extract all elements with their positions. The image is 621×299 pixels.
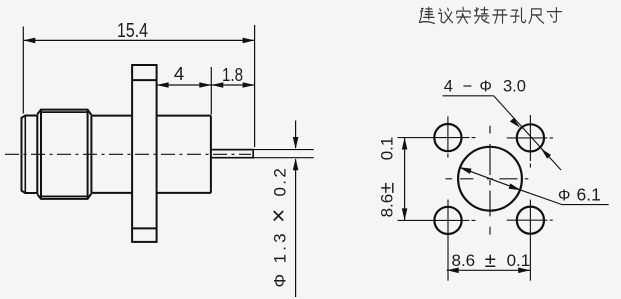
svg-text:15.4: 15.4 <box>117 20 148 42</box>
svg-text:1.3: 1.3 <box>270 233 289 263</box>
svg-text:4: 4 <box>444 78 453 96</box>
svg-text:0.1: 0.1 <box>378 137 397 161</box>
svg-text:±: ± <box>485 249 496 272</box>
svg-text:4: 4 <box>174 63 184 84</box>
svg-text:1.8: 1.8 <box>222 64 243 85</box>
svg-text:×: × <box>265 209 292 223</box>
svg-text:8.6: 8.6 <box>452 251 476 270</box>
svg-text:8.6: 8.6 <box>378 194 397 218</box>
svg-text:Φ: Φ <box>480 79 492 96</box>
svg-text:3.0: 3.0 <box>503 78 526 96</box>
svg-text:Φ: Φ <box>558 187 570 204</box>
svg-text:6.1: 6.1 <box>577 184 601 204</box>
svg-text:Φ: Φ <box>270 274 289 288</box>
svg-text:−: − <box>463 78 473 96</box>
svg-text:±: ± <box>376 182 399 193</box>
svg-text:0.1: 0.1 <box>507 251 531 270</box>
svg-text:0.2: 0.2 <box>270 168 289 196</box>
